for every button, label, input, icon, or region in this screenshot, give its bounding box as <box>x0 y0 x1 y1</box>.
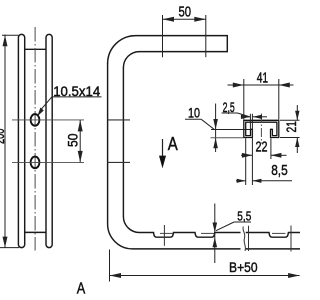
rail bottom edge right of break <box>246 248 300 250</box>
dimension B+50 arrowhead left <box>110 273 122 278</box>
dimension B+50 arrowhead right <box>288 273 300 278</box>
dimension 200 arrowhead up <box>3 35 8 46</box>
side view leg inner edge <box>122 67 124 216</box>
svg-text:41: 41 <box>257 70 268 87</box>
dimension B+50 lines <box>110 250 300 282</box>
dimension 5,5 arrowhead down <box>213 223 218 233</box>
front view right flange strip <box>46 34 52 247</box>
dimension 2,5 lines <box>222 113 268 185</box>
label 10.5x14 leader line <box>41 97 52 109</box>
rail top edge with slots left of break <box>123 217 240 238</box>
dimension 5,5 leader line <box>216 222 234 231</box>
dimension 21 arrowhead up <box>295 138 299 148</box>
slot 2 inner edge line <box>201 232 215 234</box>
dimension 50 hole pitch arrowhead up <box>78 120 83 131</box>
svg-text:5,5: 5,5 <box>237 209 251 224</box>
svg-text:22: 22 <box>256 140 268 156</box>
leg hole center line bottom <box>108 161 130 163</box>
side view bottom outer curve and rail bottom edge left of break <box>108 224 241 249</box>
slot hole bottom 10.5x14 <box>31 157 40 169</box>
side view leg outer edge <box>107 63 109 224</box>
label 10.5x14 leader arrowhead <box>37 108 44 117</box>
detail A center line <box>260 114 262 144</box>
section arrow A line <box>162 139 164 158</box>
svg-text:8,5: 8,5 <box>271 163 288 179</box>
dimension 21 lines <box>280 105 300 153</box>
hole center line top <box>12 119 84 121</box>
side view top bar outline with corner <box>108 36 228 68</box>
svg-text:A: A <box>168 134 178 154</box>
svg-text:50: 50 <box>179 3 192 20</box>
dimension 10 arrowhead up <box>213 138 218 149</box>
dimension 22 arrowhead left <box>242 153 253 158</box>
slot 3 inner edge line <box>272 232 286 234</box>
dimension 2,5 arrowhead left <box>241 115 251 119</box>
dimension 5,5 arrowhead up <box>213 237 218 247</box>
svg-text:50: 50 <box>64 133 80 147</box>
dimension 41 arrowhead left <box>233 83 244 88</box>
dimension 22 arrowhead right <box>271 153 282 158</box>
dimension 50 top lines <box>163 15 206 57</box>
dimension 10 lines <box>185 104 250 153</box>
dimension 200 line and extension lines <box>0 35 19 248</box>
rail slot center line 3 <box>290 226 292 252</box>
svg-text:B+50: B+50 <box>229 259 258 275</box>
svg-text:A: A <box>77 280 86 297</box>
dimension 8,5 lines <box>236 138 292 185</box>
dimension 41 lines <box>228 79 294 120</box>
front view vertical center line <box>34 27 36 251</box>
slot hole top 10.5x14 <box>31 114 40 126</box>
svg-text:21: 21 <box>283 121 299 133</box>
rail slot center line 1 <box>163 225 165 246</box>
rail top edge with slot right of break <box>246 233 300 238</box>
dimension 50 top arrowhead left <box>163 17 175 22</box>
front view web bottom edge <box>25 231 46 233</box>
dimension 21 arrowhead down <box>295 111 299 121</box>
break mark straight line <box>248 226 250 251</box>
dimension 5,5 line <box>214 204 216 264</box>
section arrow A arrowhead <box>159 156 166 169</box>
dimension 5,5 underline <box>234 221 251 223</box>
dimension 41 arrowhead right <box>279 83 290 88</box>
dimension 200 arrowhead down <box>3 237 8 248</box>
dimension 8,5 arrowhead right <box>252 179 261 183</box>
svg-text:10: 10 <box>188 105 200 121</box>
dimension 22 lines <box>241 138 287 159</box>
dimension 8,5 arrowhead left <box>237 179 246 183</box>
front view left flange strip <box>18 34 24 247</box>
detail A profile cross-section <box>244 120 279 137</box>
dimension 50 top arrowhead right <box>194 17 206 22</box>
dimension 10 arrowhead down <box>213 119 218 130</box>
svg-text:200: 200 <box>0 129 7 145</box>
slot 1 inner edge line <box>160 232 173 234</box>
svg-text:2,5: 2,5 <box>223 99 235 115</box>
break mark squiggle <box>243 227 245 252</box>
dimension 50 hole pitch line <box>79 120 81 162</box>
dimension 2,5 arrowhead right <box>253 115 263 119</box>
label 10.5x14 underline <box>52 96 102 98</box>
leg hole center line top <box>108 119 130 121</box>
hole center line bottom <box>12 161 84 163</box>
front view web top edge <box>25 48 46 50</box>
dimension 50 hole pitch arrowhead down <box>78 151 83 163</box>
